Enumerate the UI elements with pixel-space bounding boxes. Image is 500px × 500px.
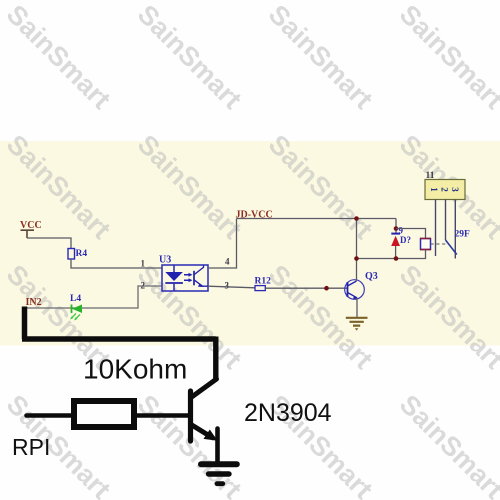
transistor 2N3904 collector stroke — [191, 379, 217, 398]
junction diode bottom — [394, 256, 399, 261]
coupling arrows — [184, 275, 190, 281]
svg-text:R4: R4 — [76, 249, 88, 259]
svg-text:4: 4 — [225, 257, 230, 267]
LED L4 — [70, 294, 82, 321]
relay switch blade — [446, 240, 457, 255]
op-amp U3 optocoupler — [159, 255, 208, 292]
svg-text:IN2: IN2 — [26, 297, 42, 308]
connector J1 — [425, 171, 465, 200]
svg-text:D?: D? — [400, 235, 411, 245]
power symbol VCC — [20, 220, 42, 238]
wire U3 pin4 to JD-VCC — [208, 219, 237, 269]
ground bar 1 — [201, 461, 237, 467]
connector pin 1 wire — [435, 200, 437, 257]
relay coil — [420, 239, 431, 250]
wire coil bottom to collector line — [357, 250, 426, 259]
svg-text:U3: U3 — [159, 255, 171, 266]
svg-text:3: 3 — [450, 187, 460, 192]
wire JD-VCC rail — [237, 218, 397, 220]
wire U3 pin3 to R12 — [208, 286, 255, 288]
svg-text:1: 1 — [429, 187, 439, 192]
wire top rail (thick) — [22, 336, 216, 342]
transistor Q3 — [345, 271, 378, 299]
diode D? — [391, 226, 411, 259]
wire rail corner down to diode — [395, 219, 397, 234]
svg-text:2: 2 — [141, 281, 146, 291]
svg-text:2N3904: 2N3904 — [244, 399, 332, 427]
junction on base wire — [324, 286, 329, 291]
wire IN2 tap (thick vertical) — [22, 307, 28, 340]
wire RPI lead — [27, 413, 72, 418]
wire VCC to R4 — [27, 238, 71, 249]
svg-text:R12: R12 — [255, 277, 272, 287]
svg-text:3: 3 — [225, 281, 230, 291]
svg-text:10Kohm: 10Kohm — [83, 354, 187, 385]
wire R12 to Q3 base — [265, 287, 347, 289]
wire Q3 collector to rail — [356, 219, 358, 282]
svg-text:RPI: RPI — [12, 434, 50, 460]
wire emitter to ground — [215, 429, 220, 464]
ground dot — [217, 481, 223, 486]
wire resistor to base — [137, 413, 188, 418]
connector pin 2 wire — [445, 200, 447, 241]
emitter arrowhead — [204, 430, 218, 441]
dashed link coil to blade — [431, 243, 448, 245]
resistor R4 — [68, 249, 75, 260]
wire IN2 to U3 pin2 — [25, 286, 162, 308]
ground bar 2 — [209, 471, 230, 476]
led inside — [173, 266, 175, 273]
transistor 2N3904 base bar — [188, 391, 193, 441]
ground Q3 emitter — [346, 298, 368, 331]
svg-text:2: 2 — [440, 187, 450, 192]
wire to collector (thick vertical) — [213, 337, 218, 381]
svg-text:29F: 29F — [455, 230, 471, 240]
svg-text:1: 1 — [141, 259, 146, 269]
wire R4 to U3 pin1 — [71, 259, 162, 268]
resistor R12 — [255, 286, 265, 291]
junction collector line — [354, 256, 359, 261]
yellow band — [0, 141, 500, 346]
junction rail/collector — [354, 216, 359, 221]
resistor 10Kohm body — [74, 401, 134, 427]
svg-text:Q3: Q3 — [365, 271, 378, 282]
svg-text:VCC: VCC — [20, 220, 42, 231]
svg-text:L4: L4 — [70, 294, 81, 304]
transistor 2N3904 emitter stroke — [191, 425, 213, 438]
connector pin 3 wire — [454, 200, 456, 259]
junction diode top — [394, 226, 399, 231]
wire diode top to relay coil — [396, 229, 426, 239]
photo transistor — [193, 271, 195, 286]
